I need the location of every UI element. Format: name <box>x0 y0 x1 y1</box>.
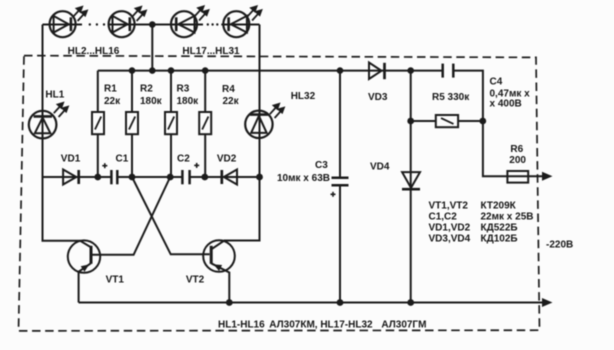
svg-text:VD3: VD3 <box>368 92 388 103</box>
svg-text:22к: 22к <box>104 96 121 107</box>
svg-text:R1: R1 <box>104 84 117 95</box>
svg-text:C3: C3 <box>315 160 328 171</box>
svg-text:КТ209К: КТ209К <box>481 201 517 212</box>
svg-text:200: 200 <box>509 155 526 166</box>
svg-text:HL1-HL16: HL1-HL16 <box>218 320 265 331</box>
svg-text:R4: R4 <box>222 84 235 95</box>
svg-text:-220В: -220В <box>546 240 573 251</box>
svg-text:HL1: HL1 <box>45 90 64 101</box>
svg-text:C1: C1 <box>116 154 129 165</box>
svg-text:АЛ307ГМ: АЛ307ГМ <box>381 320 426 331</box>
svg-text:АЛ307КМ, HL17-HL32: АЛ307КМ, HL17-HL32 <box>269 320 373 331</box>
svg-text:22мк x 25В: 22мк x 25В <box>481 212 534 223</box>
svg-text:VT2: VT2 <box>186 275 205 286</box>
svg-text:КД102Б: КД102Б <box>481 234 518 245</box>
svg-text:R5 330к: R5 330к <box>432 92 470 103</box>
svg-text:x 400В: x 400В <box>490 99 522 110</box>
svg-text:C2: C2 <box>177 154 190 165</box>
svg-text:R3: R3 <box>177 84 190 95</box>
svg-text:180к: 180к <box>177 96 200 107</box>
svg-text:180к: 180к <box>140 96 163 107</box>
svg-text:HL32: HL32 <box>291 91 316 102</box>
svg-text:HL17...HL31: HL17...HL31 <box>182 46 240 57</box>
svg-text:10мк x 63В: 10мк x 63В <box>277 173 330 184</box>
svg-text:22к: 22к <box>223 96 240 107</box>
svg-text:C1,C2: C1,C2 <box>429 212 458 223</box>
svg-text:VT1: VT1 <box>106 275 125 286</box>
svg-text:VD3,VD4: VD3,VD4 <box>429 234 471 245</box>
svg-text:R2: R2 <box>140 84 153 95</box>
svg-text:VD1: VD1 <box>61 154 81 165</box>
svg-text:КД522Б: КД522Б <box>481 223 518 234</box>
svg-text:VD4: VD4 <box>370 162 390 173</box>
svg-text:C4: C4 <box>490 77 503 88</box>
svg-text:HL2...HL16: HL2...HL16 <box>68 46 120 57</box>
svg-text:VD2: VD2 <box>217 154 237 165</box>
svg-text:VT1,VT2: VT1,VT2 <box>429 201 469 212</box>
svg-text:VD1,VD2: VD1,VD2 <box>429 223 471 234</box>
svg-text:R6: R6 <box>510 144 523 155</box>
